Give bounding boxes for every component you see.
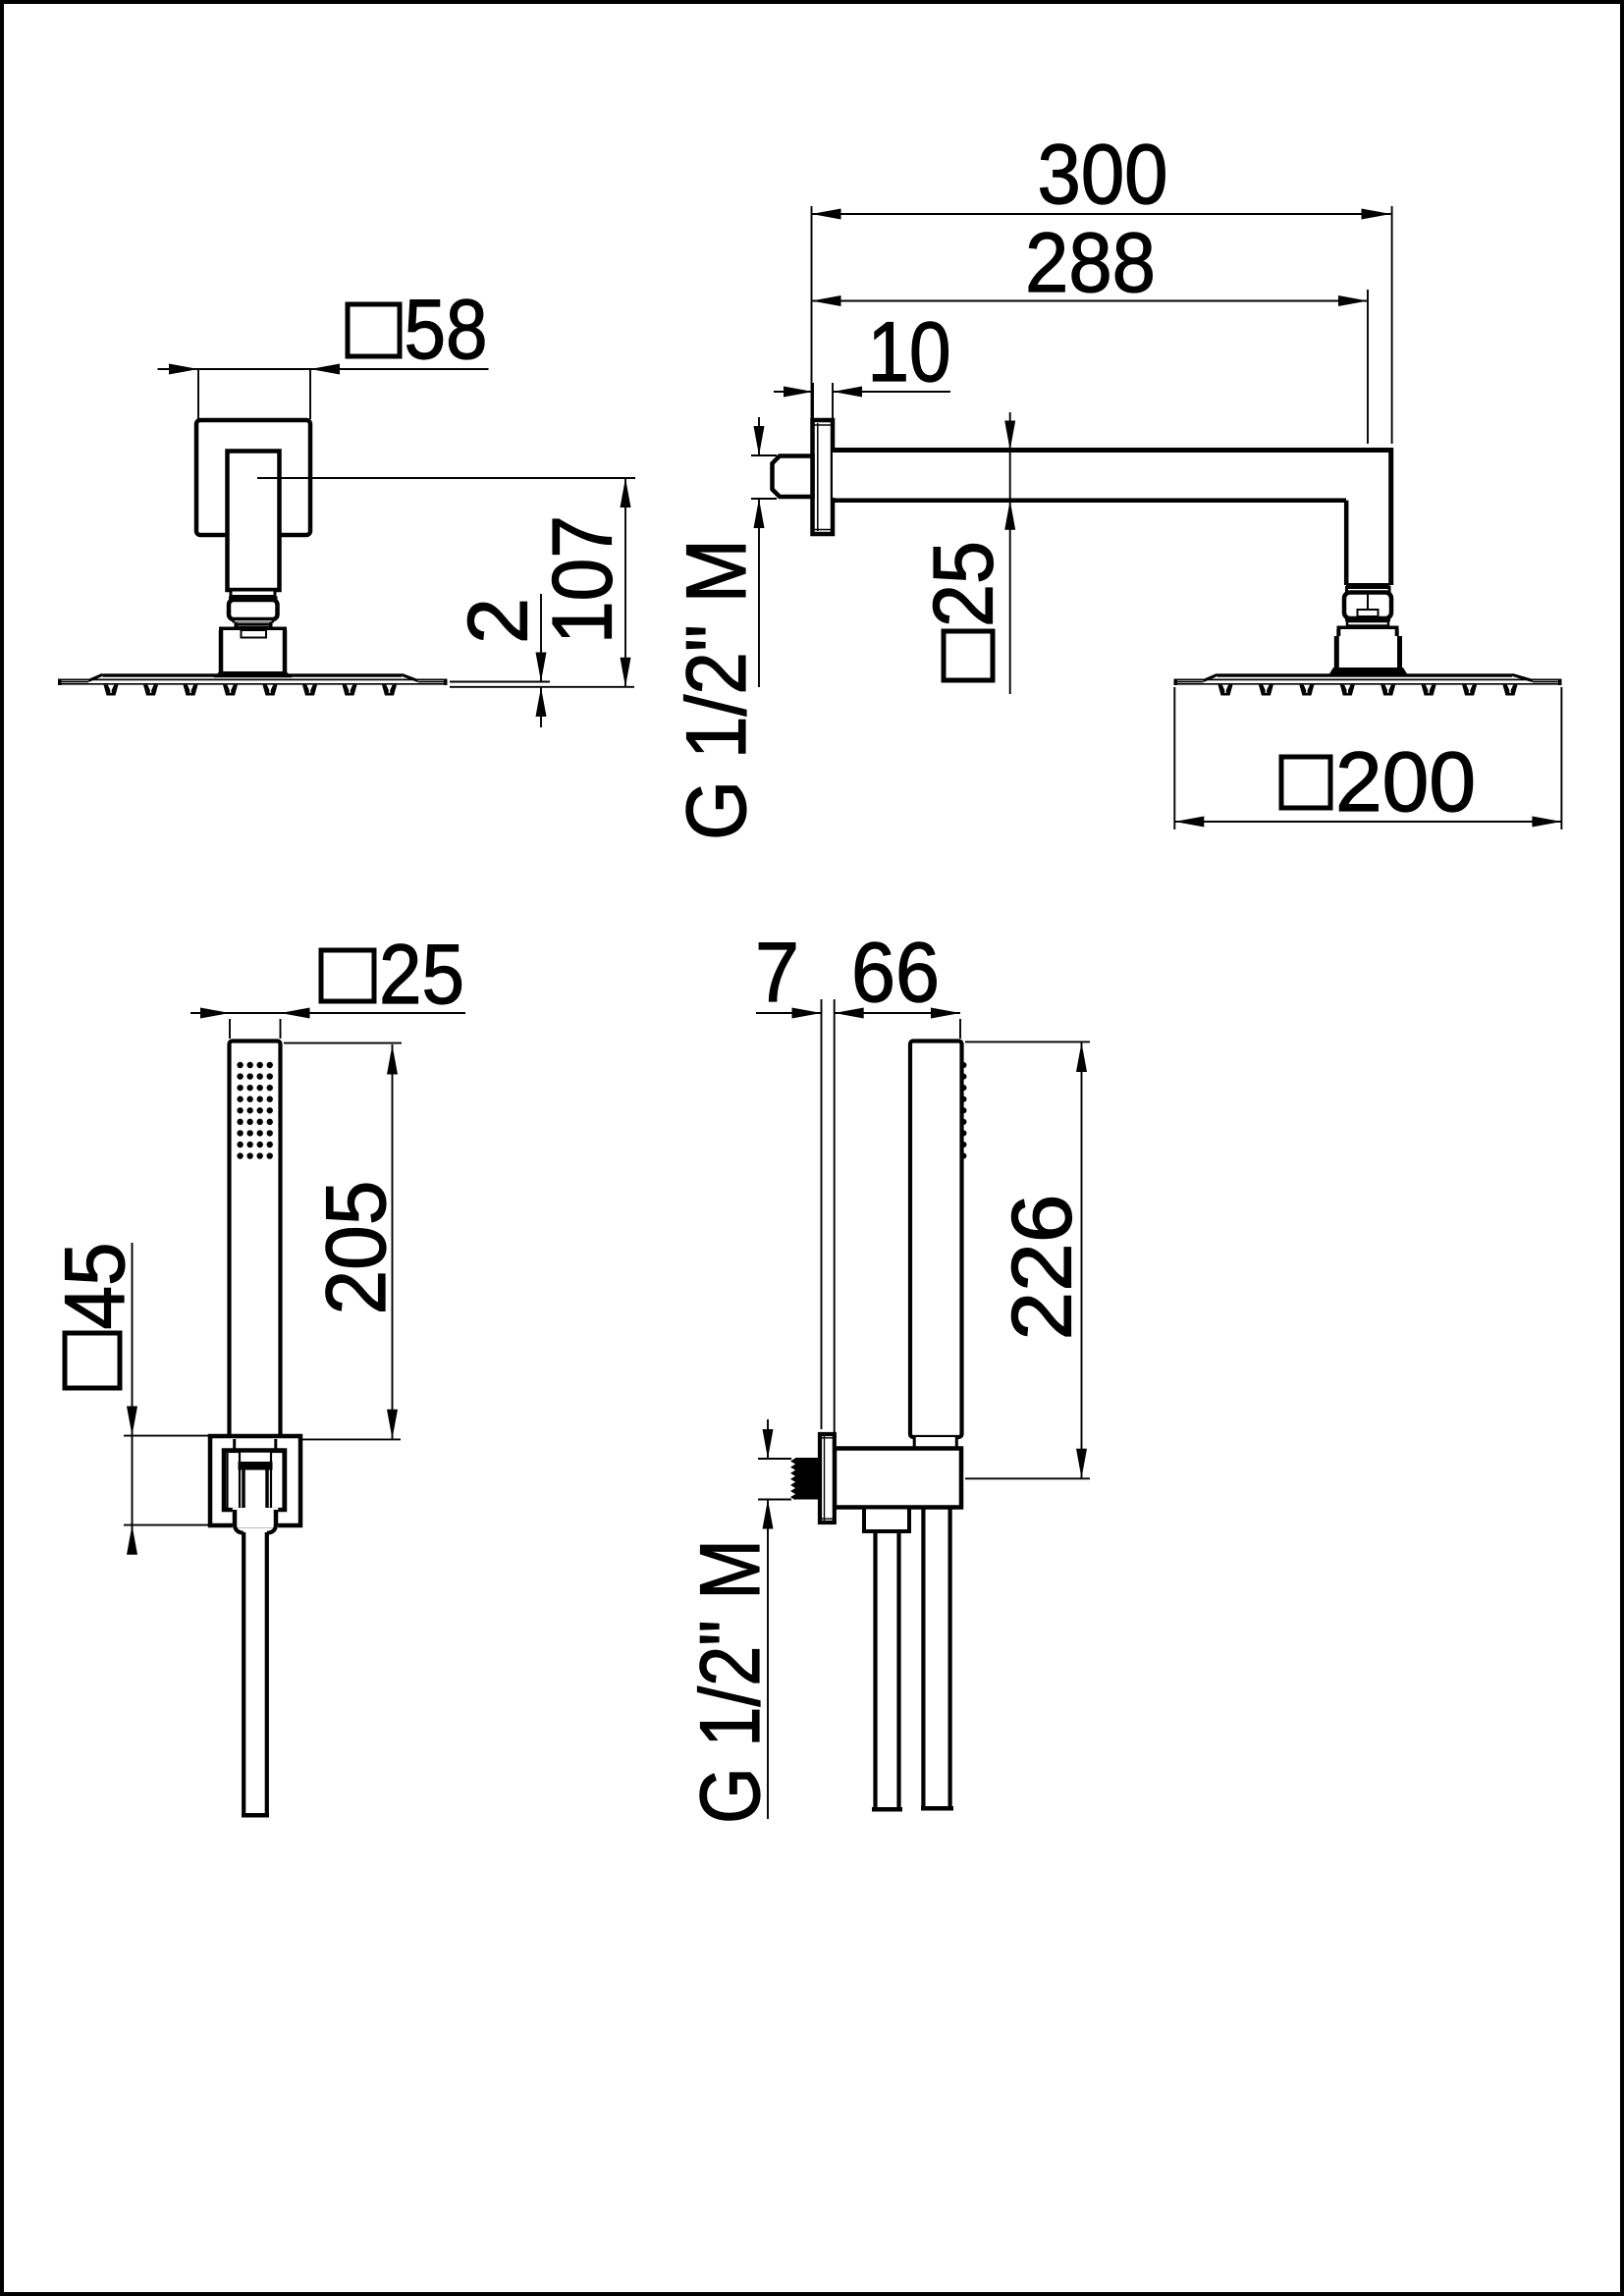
dim 25 extension lines (229, 1019, 231, 1039)
shower head plate bevel right (1512, 674, 1533, 680)
wand side spray dots (961, 1062, 967, 1068)
wall flange side hand shower (820, 1434, 835, 1522)
threaded stub hand shower (795, 1458, 822, 1500)
rings front (236, 623, 271, 625)
dim 7 66 dimension line (756, 1012, 822, 1014)
shower head plate top surface (1218, 673, 1512, 676)
svg-text:107: 107 (536, 515, 630, 644)
G 1/2 M leader bottom view (767, 1419, 769, 1459)
dim 2 dimension line lower (540, 687, 542, 727)
shower head plate edge lines (1174, 678, 1562, 680)
holder body side (835, 1449, 961, 1508)
svg-text:7: 7 (755, 926, 799, 1020)
dim 200 extension lines (1173, 687, 1175, 829)
hose nipple below holder (864, 1508, 909, 1532)
dim 288 dimension line (812, 300, 1369, 302)
dim 226 dimension line (1081, 1041, 1083, 1478)
svg-text:G 1/2" M: G 1/2" M (670, 539, 764, 840)
shower head plate end caps (58, 679, 62, 686)
dim 7 66 extension lines (821, 999, 823, 1429)
dim 45 dimension line (132, 1243, 134, 1553)
svg-text:25: 25 (917, 541, 1011, 627)
square symbol for 58 (348, 304, 400, 356)
hose 2 side view (921, 1508, 925, 1809)
dim 226 extension lines (965, 1041, 1090, 1042)
dim 300 dimension line (812, 213, 1391, 215)
svg-text:205: 205 (309, 1181, 404, 1315)
square symbol for 25 hand shower (321, 950, 374, 1001)
swivel collar front (231, 590, 275, 597)
dim 10 extension lines (812, 383, 814, 418)
wand side taper (913, 1437, 958, 1449)
wall flange side view (813, 420, 834, 534)
wand taper into holder (234, 1439, 278, 1451)
shower arm body front (228, 452, 280, 591)
hand shower wand side (910, 1041, 962, 1438)
cone base flare front (214, 671, 293, 677)
svg-text:G 1/2" M: G 1/2" M (683, 1539, 778, 1824)
square symbol for 200 (1281, 757, 1330, 808)
cone base flare side (1329, 667, 1408, 674)
shower head plate bevel left (1204, 674, 1218, 680)
hand shower wand front (230, 1041, 281, 1440)
arm leg bottom cap (1346, 583, 1390, 588)
shower head nozzles (1218, 685, 1233, 696)
shower arm tube side view (833, 453, 1388, 583)
cone top plate front (219, 627, 287, 631)
swivel collar side (1347, 588, 1390, 593)
square symbol for 45 (65, 1333, 120, 1388)
svg-text:10: 10 (868, 305, 951, 400)
hose 1 side view (873, 1531, 877, 1809)
dim 10 dimension line (774, 391, 813, 393)
dim 107 dimension line (624, 478, 626, 687)
swivel nut side (1344, 593, 1391, 619)
cone window front (242, 630, 267, 638)
dim 205 extension lines (284, 1042, 402, 1044)
dim 288 extension line (1367, 290, 1369, 444)
shower head plate edge lines (58, 678, 448, 680)
shower head plate bevel right (402, 674, 418, 680)
wand lower tube in holder (243, 1470, 269, 1512)
svg-text:226: 226 (996, 1195, 1090, 1341)
svg-text:58: 58 (405, 283, 488, 377)
shower head nozzles (104, 685, 119, 696)
dim 25 dimension line (190, 1012, 465, 1014)
cone sides front (219, 630, 224, 673)
svg-text:25: 25 (379, 928, 464, 1022)
dim 200 dimension line (1174, 821, 1561, 823)
hose front view (242, 1532, 245, 1815)
dim 300 extension lines (811, 206, 813, 419)
shower head plate bevel left (88, 674, 103, 680)
wall bracket escutcheon front (196, 420, 310, 535)
dim 2 dimension line upper (540, 594, 542, 682)
dim 107 extension line at plate (450, 686, 634, 688)
svg-text:288: 288 (1025, 216, 1156, 310)
svg-text:300: 300 (1038, 128, 1168, 222)
hose stub below holder (233, 1508, 278, 1527)
leader line from arm body (257, 477, 635, 479)
dim 45 extension lines (124, 1435, 211, 1437)
holder clip bar (239, 1462, 273, 1470)
wall holder bracket front (210, 1436, 300, 1525)
hose shoulders (235, 1524, 244, 1533)
svg-text:2: 2 (452, 598, 546, 644)
svg-text:45: 45 (48, 1243, 142, 1330)
nut top band front (229, 597, 278, 601)
dim 205 dimension line (392, 1044, 394, 1439)
dim 58 extension lines (197, 369, 199, 419)
svg-text:200: 200 (1335, 735, 1476, 829)
square symbol for 25 arm (944, 631, 993, 680)
G 1/2 M leader top view (758, 417, 760, 455)
swivel nut front (229, 600, 278, 619)
cone upper sides (1336, 629, 1340, 636)
dim 2 extension line (450, 681, 550, 683)
threaded inlet G 1/2 (773, 456, 813, 498)
nut lower band front (233, 619, 275, 623)
cone top plate side (1337, 626, 1399, 630)
dim square25 line (1009, 412, 1011, 694)
wand spray dots (237, 1062, 243, 1068)
shower head plate top surface (103, 673, 403, 676)
cone step sides (1334, 636, 1339, 669)
rings side (1345, 618, 1390, 622)
svg-text:66: 66 (851, 926, 940, 1020)
dim 58 dimension line (158, 368, 489, 370)
shower head plate end caps (1174, 679, 1178, 686)
holder clip columns (228, 1452, 241, 1509)
holder cup front (224, 1451, 285, 1511)
